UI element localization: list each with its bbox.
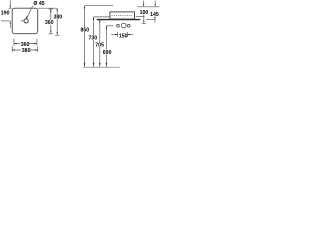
dim 150 left arrow (111, 34, 118, 36)
dim 690 vertical line (105, 26, 107, 67)
dim 190 upper arrowhead (10, 6, 11, 9)
dim 730 reference tick (94, 16, 110, 18)
svg-text:380: 380 (54, 14, 63, 20)
label 705 (95, 42, 104, 47)
tick under 100 dim (142, 22, 146, 24)
middle dim 380 vertical line (56, 8, 58, 34)
basin inner bottom dashed line (112, 15, 134, 17)
dim 380 line (12, 49, 38, 51)
dim 190 upper shaft (9, 1, 11, 6)
svg-text:190: 190 (1, 11, 10, 17)
dim 150 right arrow (128, 34, 134, 36)
svg-text:150: 150 (119, 33, 128, 39)
label 150 (119, 33, 128, 37)
middle dim 360 bottom tick (49, 33, 53, 35)
dim 360 arrows (14, 43, 17, 44)
basin top view outline (12, 8, 38, 34)
drain hole circle (24, 19, 28, 23)
arrow at 145 dim top (154, 1, 156, 5)
arrow at 100 dim top (143, 1, 145, 5)
leader arrowhead (26, 16, 28, 19)
svg-text:690: 690 (103, 50, 112, 56)
leader line for drain label (27, 6, 32, 17)
middle dim 360 vertical line (50, 9, 52, 33)
svg-text:730: 730 (89, 35, 98, 41)
dim 150 extension lines (117, 32, 119, 37)
middle dim 380 bottom tick (55, 34, 59, 36)
dim 690 reference tick (106, 25, 113, 27)
centerline dash at circle (21, 20, 24, 22)
counter slab (97, 19, 141, 21)
drain outlet circle (121, 23, 126, 28)
stub below 145 dim (154, 20, 156, 23)
svg-text:705: 705 (95, 43, 104, 49)
svg-text:Ø 45: Ø 45 (33, 1, 44, 7)
dim 360 extension lines (13, 39, 15, 46)
floor line (83, 66, 120, 68)
svg-text:380: 380 (22, 48, 31, 54)
label 850 (80, 27, 89, 32)
dim 190 lower shaft (9, 23, 11, 27)
dim 360 line (14, 43, 37, 45)
centerline outside left (1, 20, 10, 22)
svg-text:850: 850 (81, 27, 90, 33)
dim 850 vertical line (84, 6, 86, 67)
dim 100 lower shaft (143, 15, 145, 22)
label 360 (20, 42, 29, 47)
middle label 360 (44, 20, 53, 25)
dim 705 vertical line (99, 19, 101, 66)
label 690 (102, 49, 111, 54)
middle label 380 (53, 14, 62, 19)
water connection circle left (117, 24, 120, 27)
label 730 (88, 35, 97, 40)
reference tick at inner bottom level right (136, 16, 145, 18)
label 380 (21, 48, 30, 53)
dim 730 vertical line (93, 17, 95, 67)
dim 380 extension lines (11, 46, 13, 51)
side view top reference line (85, 5, 114, 7)
svg-text:360: 360 (45, 20, 54, 26)
counter level line right (146, 19, 156, 21)
dim 190 top extension tick (8, 7, 12, 9)
inner edge tick (49, 8, 53, 10)
basin side view (110, 12, 135, 19)
dim 190 lower arrowhead (10, 21, 11, 24)
top right dim reference line (137, 6, 160, 8)
water connection circle right (127, 24, 130, 27)
top edge extension line to middle dims (38, 7, 58, 9)
dim 380 arrows (12, 49, 15, 50)
dim 145 lower shaft (154, 16, 156, 17)
